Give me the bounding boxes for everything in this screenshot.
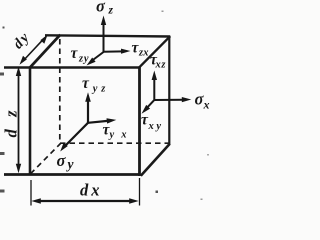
- dy dimension line: [23, 38, 45, 62]
- sigma_x arrow: [154, 99, 184, 101]
- back right vertical edge: [168, 36, 170, 145]
- svg-text:τ: τ: [82, 75, 90, 92]
- front left vertical edge: [29, 67, 32, 176]
- front right vertical edge: [138, 67, 141, 177]
- tau_xy arrow: [146, 100, 154, 109]
- tau_zx arrow: [104, 50, 124, 52]
- tau_yx arrow: [88, 121, 108, 123]
- dx right extension line: [139, 178, 141, 206]
- svg-text:z: z: [108, 5, 114, 17]
- svg-text:y: y: [66, 157, 75, 172]
- hidden back-left vertical edge (dashed): [59, 39, 61, 144]
- top-right receding edge: [138, 36, 170, 68]
- tau_zy arrow: [92, 52, 104, 61]
- svg-text:xz: xz: [155, 60, 167, 71]
- sigma_z arrow: [103, 23, 105, 53]
- dz dimension line: [18, 72, 20, 167]
- dx left extension line: [30, 180, 32, 206]
- svg-text:zx: zx: [138, 48, 149, 59]
- tau_yz arrow: [87, 100, 89, 124]
- hidden back bottom edge (dashed): [60, 142, 169, 144]
- back top edge (extended left past corner): [45, 35, 170, 36]
- sigma_y arrow: [66, 123, 88, 145]
- svg-text:zy: zy: [78, 54, 89, 65]
- scan speckles: [0, 11, 209, 201]
- svg-text:x: x: [203, 98, 210, 112]
- svg-text:τ: τ: [71, 45, 79, 62]
- dx dimension line: [36, 200, 134, 202]
- front bottom edge (extended left as dz extension line): [4, 173, 141, 176]
- front top edge (extended left as dz extension line): [4, 66, 140, 69]
- hidden bottom-left receding edge (dashed): [31, 144, 61, 174]
- tau_xz arrow: [153, 78, 155, 101]
- svg-text:σ: σ: [57, 151, 67, 170]
- bottom-right receding edge: [141, 144, 170, 176]
- svg-text:σ: σ: [96, 0, 106, 16]
- top-left receding edge: [29, 35, 60, 69]
